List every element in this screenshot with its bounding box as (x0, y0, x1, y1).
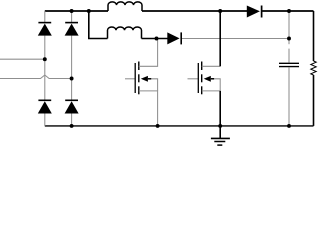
wire: AC input line 1 (0, 58, 45, 60)
ground (211, 126, 230, 145)
node: top rail / cap branch (287, 9, 291, 13)
Q2 source vertical to bottom rail (219, 91, 221, 126)
node: bottom rail / column 2 (70, 124, 74, 128)
C1 top wire (288, 39, 290, 45)
C1 bottom wire (288, 67, 290, 126)
Q1 drain lead (139, 39, 158, 67)
R1 top lead / right edge top (313, 11, 315, 61)
transistor Q2 (right MOSFET) (188, 11, 221, 126)
Q2 drain lead (202, 65, 221, 67)
wire: bridge column 1 (left, x=45) (44, 11, 46, 126)
Q2 gate stub (188, 78, 199, 80)
node: AC2 / column 2 (70, 77, 74, 81)
wire: top rail (45, 10, 314, 12)
Q1 body arrow (141, 76, 148, 82)
node: bottom rail / Q1 source (156, 124, 160, 128)
Q1 gate stub (125, 78, 135, 80)
diode D4 (bridge lower-right) (65, 100, 79, 113)
node: top rail / L2 feed (87, 9, 91, 13)
inductor L1 (top) (108, 2, 142, 11)
Q1 body lead (148, 79, 158, 91)
R1 bottom lead / right edge bottom (313, 75, 315, 126)
node: mid line / Q1 drain (155, 37, 159, 41)
Q1 source lead (139, 91, 158, 126)
diode D2 (bridge upper-right) (65, 23, 79, 36)
wire: feed from top rail to L2 (89, 11, 108, 39)
node: bottom rail / cap branch (287, 124, 291, 128)
Q2 channel segments (201, 62, 203, 95)
wire: AC input line 2 (with hop over column 1) (0, 75, 72, 79)
node: AC1 / column 1 (43, 57, 47, 61)
diode D1 (bridge upper-left) (38, 23, 52, 36)
node: top rail / column 2 (70, 9, 74, 13)
resistor R1 (right edge) (311, 11, 316, 126)
C1 plates (279, 62, 299, 64)
node: top rail / Q2 drain (218, 9, 222, 13)
Q2 body arrow (204, 76, 211, 82)
diode D5 (top right, pointing right) (247, 6, 262, 18)
wire: grey mid line from D6 to capacitor node (182, 38, 289, 40)
transistor Q1 (left MOSFET) (125, 39, 158, 126)
Q2 drain vertical to top rail (219, 11, 221, 66)
capacitor C1 (279, 39, 299, 126)
node: bottom rail / Q2 source + ground (218, 124, 222, 128)
inductor L2 (second) (108, 27, 142, 39)
Q2 gate line (197, 63, 199, 93)
wire: bridge column 2 (right, x=71.6) (71, 11, 73, 126)
wire: bottom rail (45, 125, 314, 127)
node: mid line / cap branch (287, 37, 291, 41)
diode D3 (bridge lower-left) (38, 100, 52, 113)
Q1 channel segments (138, 62, 140, 95)
Q2 body lead (211, 79, 220, 91)
Q2 source lead (202, 90, 221, 92)
Q1 gate line (134, 63, 136, 93)
wire: vertical from top rail to mid line at cap node (288, 11, 290, 39)
wire: mid line from L2 to diode D6 (142, 38, 168, 40)
R1 zigzag (311, 61, 316, 75)
diode D6 (mid, pointing right) (167, 32, 181, 44)
